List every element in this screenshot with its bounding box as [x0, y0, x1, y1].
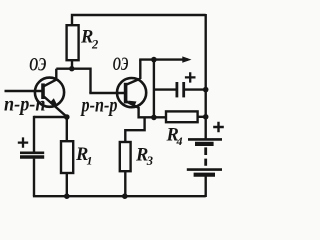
wire: bypass branch horizontal [34, 116, 67, 118]
node: Q1 emitter / R1 / C1 junction [64, 114, 70, 120]
battery GB cell 1 short plate [195, 142, 214, 146]
battery GB cell 2 short plate [194, 173, 215, 177]
wire: Q1 base input [5, 90, 43, 92]
wire: R3 bottom stub [124, 171, 126, 196]
svg-text:2: 2 [91, 38, 98, 52]
wire: C1 bottom lead [33, 159, 35, 197]
transistor Q2 collector lead [126, 79, 140, 85]
transistor Q1 collector lead [44, 80, 57, 87]
resistor R4 [166, 111, 198, 122]
battery GB cell 1 long plate [188, 138, 222, 141]
wire: collector node horizontal [56, 67, 90, 69]
capacitor C2 plus sign [185, 72, 196, 82]
capacitor C2 right plate [182, 82, 185, 97]
wire: emitter junction to R1 [66, 117, 68, 141]
node: arrow line / vertical junction [151, 57, 157, 63]
transistor Q1 base bar [41, 83, 45, 99]
battery GB dashed middle [204, 147, 207, 165]
svg-text:3: 3 [146, 154, 153, 168]
wire: R2 bottom stub [71, 60, 73, 69]
wire: C1 top lead [33, 116, 35, 152]
resistor R1 [61, 141, 73, 173]
node: R4 to right rail [203, 114, 209, 120]
node: emitter / R4 / vertical junction [151, 115, 157, 121]
node: R2 / Q1 collector junction [69, 66, 74, 71]
transistor Q2 emitter arrow [128, 101, 136, 107]
svg-text:р-п-р: р-п-р [80, 96, 118, 117]
capacitor C1 bottom plate [20, 155, 44, 159]
capacitor C1 plus sign [18, 137, 28, 147]
transistor Q2 base bar [124, 83, 128, 104]
transistor Q1 (n-p-n) circle [35, 78, 64, 107]
svg-text:п-р-п: п-р-п [4, 95, 46, 116]
battery GB plus sign [213, 122, 224, 133]
svg-text:1: 1 [87, 154, 93, 168]
svg-text:ОЭ: ОЭ [113, 55, 129, 75]
wire: coupling to Q2 base [89, 92, 124, 94]
transistor Q2 (p-n-p) circle [117, 78, 146, 107]
wire: bottom rail right drop [204, 176, 206, 197]
wire: C2 right lead [185, 88, 206, 90]
wire: R3 staircase [125, 117, 146, 142]
resistor R3 [120, 142, 131, 171]
wire: Q2 collector riser [139, 60, 141, 79]
wire: top positive rail [72, 15, 206, 26]
capacitor C2 left plate [175, 82, 178, 97]
wire: bottom negative rail [33, 195, 206, 197]
wire: output arrow line [139, 58, 188, 60]
transistor Q1 emitter arrow [50, 98, 58, 106]
wire: coupling step down [89, 68, 91, 94]
wire: right rail (top to battery) [204, 14, 206, 140]
output arrowhead [182, 56, 191, 62]
capacitor C1 top plate [20, 152, 44, 155]
node: C2 to right rail [203, 87, 209, 93]
transistor Q1 emitter lead [44, 97, 67, 117]
svg-text:4: 4 [176, 134, 183, 148]
node: R3 to bottom rail [122, 193, 128, 199]
svg-text:ОЭ: ОЭ [29, 56, 46, 76]
wire: R1 bottom stub [66, 173, 68, 196]
wire: C2 left lead [154, 88, 176, 90]
wire: vertical from arrow node down [153, 60, 155, 118]
resistor R2 [67, 25, 79, 60]
node: R1 to bottom rail [64, 193, 70, 199]
wire: R4 right stub [198, 116, 206, 118]
wire: Q2 emitter down and right [137, 107, 166, 117]
battery GB cell 2 long plate [187, 168, 222, 171]
transistor Q2 emitter lead [126, 101, 138, 107]
wire: Q1 collector riser [55, 69, 57, 81]
